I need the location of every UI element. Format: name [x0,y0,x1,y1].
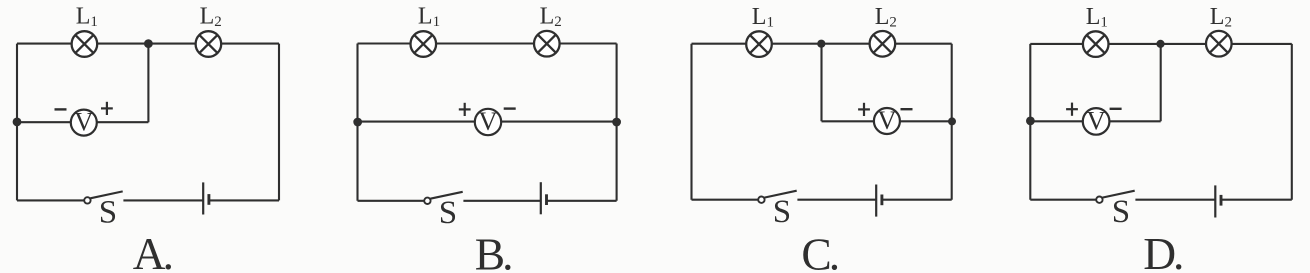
svg-text:L1: L1 [418,4,440,31]
wire voltmeter branch horizontal (circuit D) [1030,120,1160,122]
junction node on right wire (circuit C) [948,117,956,125]
wire voltmeter branch vertical (circuit C) [820,44,822,122]
wire bottom right segment (circuit B) [546,200,616,202]
wire bottom right segment (circuit A) [209,199,279,201]
svg-text:V: V [877,105,896,135]
svg-text:V: V [74,107,93,137]
wire left vertical (circuit D) [1029,44,1031,200]
junction node between L1 and L2 (circuit D) [1156,40,1164,48]
lamp L2 (circuit C) [870,31,896,57]
wire top (circuit D) [1030,43,1292,45]
junction node on left wire (circuit B) [353,118,362,127]
lamp L2 (circuit D) [1206,31,1232,57]
voltmeter V (circuit A) [71,107,97,137]
voltmeter - terminal label [901,108,913,110]
battery (circuit C) long plate [875,185,877,217]
battery (circuit D) long plate [1214,185,1216,217]
svg-text:L1: L1 [752,4,774,31]
lamp L1 (circuit D) [1083,31,1109,57]
circuit option B [353,4,621,273]
wire right vertical (circuit B) [616,44,618,201]
wire bottom right segment (circuit D) [1221,199,1292,201]
wire voltmeter branch vertical (circuit A) [147,44,149,123]
svg-text:B.: B. [475,228,514,273]
voltmeter V (circuit D) [1083,105,1110,135]
voltmeter - terminal label [504,107,516,109]
wire bottom middle segment (circuit B) [463,200,540,202]
svg-text:S: S [439,195,457,231]
voltmeter + terminal label [1066,103,1078,116]
wire voltmeter branch horizontal (circuit A) [17,121,148,123]
svg-text:A.: A. [133,228,174,273]
wire bottom middle segment (circuit C) [797,199,876,201]
svg-text:L2: L2 [1210,4,1232,31]
svg-text:V: V [1087,105,1106,135]
svg-text:V: V [478,106,497,136]
voltmeter + terminal label [101,102,113,115]
switch S (circuit A) open circle [84,197,90,203]
battery (circuit B) short thick plate [545,194,548,205]
svg-text:L2: L2 [875,4,897,31]
svg-text:C.: C. [801,228,840,273]
voltmeter + terminal label [858,103,870,116]
junction node on left wire (circuit D) [1026,117,1035,126]
battery (circuit B) long plate [540,182,542,214]
wire top (circuit C) [692,43,952,45]
lamp L1 (circuit B) [411,31,437,57]
circuit option D [1026,4,1292,273]
junction node on right wire (circuit B) [612,118,621,127]
wire bottom left segment (circuit A) [17,199,84,201]
wire top (circuit B) [358,42,617,44]
battery (circuit C) short thick plate [880,195,883,206]
svg-text:S: S [1112,194,1130,230]
svg-text:L1: L1 [1086,4,1108,31]
wire bottom right segment (circuit C) [882,199,952,201]
junction node between L1 and L2 (circuit C) [817,40,825,48]
svg-text:L1: L1 [76,4,98,31]
switch S (circuit B) lever [430,192,462,199]
switch S (circuit A) lever [90,191,122,198]
wire left vertical (circuit B) [356,44,358,201]
wire right vertical (circuit C) [951,44,953,200]
battery (circuit A) long plate [202,182,204,214]
wire bottom left segment (circuit D) [1030,199,1096,201]
switch S (circuit D) lever [1102,191,1134,198]
wire bottom middle segment (circuit D) [1135,199,1215,201]
switch S (circuit C) open circle [758,197,764,203]
voltmeter V (circuit B) [475,106,501,136]
voltmeter - terminal label [55,108,67,110]
junction node between L1 and L2 (circuit A) [144,39,153,48]
lamp L2 (circuit A) [196,31,222,57]
circuit option A [13,4,279,273]
lamp L1 (circuit C) [746,31,772,57]
svg-text:L2: L2 [540,4,562,31]
voltmeter + terminal label [459,103,471,116]
wire voltmeter branch horizontal (circuit C) [822,120,952,122]
wire voltmeter branch horizontal (circuit B) [358,121,617,123]
wire bottom left segment (circuit B) [358,200,425,202]
junction node on left wire (circuit A) [13,118,22,127]
circuit option C [692,4,957,273]
wire right vertical (circuit A) [278,44,280,201]
wire bottom left segment (circuit C) [692,199,759,201]
lamp L1 (circuit A) [72,31,98,57]
switch S (circuit D) open circle [1096,197,1102,203]
wire bottom middle segment (circuit A) [123,199,203,201]
wire left vertical (circuit C) [690,44,692,200]
wire voltmeter branch vertical (circuit D) [1160,44,1162,121]
svg-text:L2: L2 [200,4,222,31]
svg-text:D.: D. [1143,228,1184,273]
battery (circuit D) short thick plate [1220,195,1223,206]
svg-text:S: S [773,194,791,230]
wire left vertical (circuit A) [16,44,18,201]
svg-text:S: S [99,195,117,231]
lamp L2 (circuit B) [534,31,560,57]
switch S (circuit C) lever [764,191,796,198]
switch S (circuit B) open circle [424,198,430,204]
voltmeter - terminal label [1110,108,1122,110]
wire top (circuit A) [17,43,279,45]
battery (circuit A) short thick plate [207,194,210,205]
voltmeter V (circuit C) [874,105,900,135]
wire right vertical (circuit D) [1291,44,1293,200]
